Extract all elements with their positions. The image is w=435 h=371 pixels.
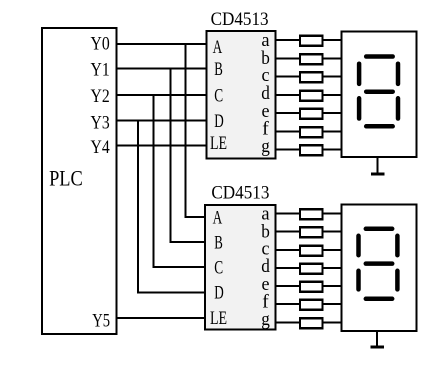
wire Y2 branch to U2 pin C xyxy=(153,95,205,267)
resistor R14 xyxy=(300,318,323,328)
svg-text:D: D xyxy=(214,111,224,132)
DS1 digit 8 segment g xyxy=(366,89,393,94)
svg-text:B: B xyxy=(214,59,223,80)
resistor R5 xyxy=(300,109,323,119)
DS1 digit 8 segment e xyxy=(357,98,362,118)
svg-text:Y2: Y2 xyxy=(91,86,110,107)
PLC box xyxy=(42,28,117,334)
DS1 digit 8 segment a xyxy=(366,54,393,59)
resistor R11 xyxy=(300,264,323,274)
wire R14 to display DS2 pin g xyxy=(323,321,342,323)
DS1 digit 8 segment b xyxy=(396,64,401,84)
wire U1 pin a to R1 xyxy=(276,39,301,41)
resistor R13 xyxy=(300,300,323,310)
svg-text:CD4513: CD4513 xyxy=(211,9,269,30)
wire R4 to display DS1 pin d xyxy=(323,94,342,96)
DS1 digit 8 segment d xyxy=(366,124,393,129)
wire U2 pin a to R8 xyxy=(276,213,300,215)
wire R7 to display DS1 pin g xyxy=(323,149,342,151)
wire Y0 to U1 pin A xyxy=(117,43,207,45)
wire Y2 to U1 pin C xyxy=(117,94,207,96)
DS1 digit 8 segment c xyxy=(396,98,401,118)
svg-text:PLC: PLC xyxy=(49,166,83,191)
wire U2 pin c to R10 xyxy=(276,249,300,251)
wire R3 to display DS1 pin c xyxy=(323,76,342,78)
wire Y3 to U1 pin D xyxy=(117,120,207,122)
ground at DS2 xyxy=(371,331,384,347)
wire R11 to display DS2 pin d xyxy=(323,267,342,269)
wire U1 pin b to R2 xyxy=(276,57,301,59)
wire R10 to display DS2 pin c xyxy=(323,249,342,251)
wire R6 to display DS1 pin f xyxy=(323,130,342,132)
wire R1 to display DS1 pin a xyxy=(323,39,342,41)
svg-text:Y3: Y3 xyxy=(91,113,110,134)
resistor R10 xyxy=(300,246,323,256)
svg-text:D: D xyxy=(214,283,224,304)
display DS2 box xyxy=(342,204,417,331)
DS2 digit 8 segment b xyxy=(395,236,400,255)
wire Y5 to U2 pin LE xyxy=(117,317,206,319)
resistor R9 xyxy=(300,227,323,237)
resistor R4 xyxy=(300,91,323,101)
svg-text:LE: LE xyxy=(210,133,227,154)
svg-text:Y0: Y0 xyxy=(91,34,110,55)
wire U2 pin e to R12 xyxy=(276,285,300,287)
DS2 digit 8 segment c xyxy=(395,271,400,290)
svg-text:C: C xyxy=(214,85,223,106)
svg-text:Y5: Y5 xyxy=(92,310,110,331)
DS2 digit 8 segment g xyxy=(366,261,392,266)
DS2 digit 8 segment a xyxy=(366,227,392,232)
svg-text:A: A xyxy=(213,207,223,228)
wire Y1 to U1 pin B xyxy=(117,68,207,70)
svg-text:B: B xyxy=(214,232,223,253)
wire R2 to display DS1 pin b xyxy=(323,57,342,59)
wire U2 pin d to R11 xyxy=(276,267,300,269)
resistor R12 xyxy=(300,282,323,292)
wire U2 pin b to R9 xyxy=(276,231,300,233)
resistor R6 xyxy=(300,127,323,137)
svg-text:CD4513: CD4513 xyxy=(211,182,269,203)
IC U1 CD4513 box xyxy=(206,31,275,159)
wire U1 pin e to R5 xyxy=(276,112,301,114)
DS2 digit 8 segment d xyxy=(366,297,392,302)
resistor R2 xyxy=(300,54,323,64)
wire Y1 branch to U2 pin B xyxy=(170,69,205,242)
DS2 digit 8 segment f xyxy=(356,236,361,255)
DS2 digit 8 segment e xyxy=(356,271,361,290)
wire Y0 branch to U2 pin A xyxy=(186,44,206,217)
wire R12 to display DS2 pin e xyxy=(323,285,342,287)
resistor R7 xyxy=(300,145,323,155)
resistor R8 xyxy=(300,209,323,219)
wire U1 pin g to R7 xyxy=(276,149,301,151)
svg-text:g: g xyxy=(261,309,270,330)
wire R8 to display DS2 pin a xyxy=(323,213,342,215)
wire U1 pin c to R3 xyxy=(276,76,301,78)
resistor R3 xyxy=(300,72,323,82)
DS1 digit 8 segment f xyxy=(357,64,362,84)
svg-text:LE: LE xyxy=(210,308,227,329)
svg-text:g: g xyxy=(261,136,270,157)
resistor R1 xyxy=(300,36,323,46)
wire Y4 to U1 pin LE xyxy=(117,145,207,147)
ground at DS1 xyxy=(371,157,384,174)
wire U1 pin d to R4 xyxy=(276,94,301,96)
wire U1 pin f to R6 xyxy=(276,130,301,132)
wire Y3 branch to U2 pin D xyxy=(138,121,205,293)
display DS1 box xyxy=(342,32,417,157)
IC U2 CD4513 box xyxy=(205,205,275,330)
svg-text:Y4: Y4 xyxy=(91,137,111,158)
wire R5 to display DS1 pin e xyxy=(323,112,342,114)
wire R9 to display DS2 pin b xyxy=(323,231,342,233)
wire R13 to display DS2 pin f xyxy=(323,303,342,305)
svg-text:Y1: Y1 xyxy=(91,59,110,80)
svg-text:A: A xyxy=(213,37,223,58)
svg-text:C: C xyxy=(214,258,223,279)
wire U2 pin f to R13 xyxy=(276,303,300,305)
wire U2 pin g to R14 xyxy=(276,321,300,323)
